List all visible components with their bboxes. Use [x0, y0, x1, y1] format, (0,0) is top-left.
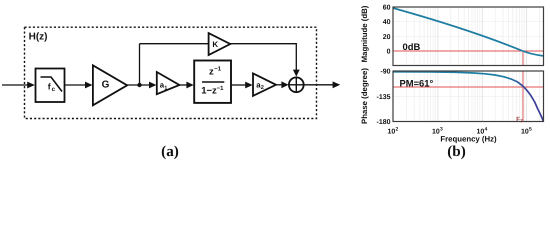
- x tick labels: [388, 126, 533, 135]
- magnitude y tick labels: [383, 5, 391, 56]
- arrowhead into integrator: [186, 82, 193, 89]
- svg-text:-135: -135: [376, 94, 390, 101]
- amplifier G: [93, 65, 127, 105]
- svg-text:(b): (b): [447, 143, 466, 160]
- svg-text:1: 1: [164, 85, 167, 91]
- integrator block z-1/(1-z-1): [194, 61, 231, 103]
- phase y tick labels: [376, 69, 390, 126]
- svg-text:Magnitude (dB): Magnitude (dB): [360, 5, 369, 62]
- svg-text:Frequency (Hz): Frequency (Hz): [440, 134, 497, 143]
- svg-text:10: 10: [432, 129, 440, 136]
- arrowhead into a1: [149, 82, 156, 89]
- svg-text:5: 5: [529, 126, 532, 132]
- filter block fc: [36, 69, 65, 103]
- wire K to summer: [230, 44, 296, 71]
- svg-text:0dB: 0dB: [403, 41, 421, 52]
- phase axes frame: [393, 71, 544, 122]
- node after G: [137, 83, 141, 87]
- arrowhead into summer left: [281, 81, 288, 88]
- arrowhead into a2: [245, 82, 252, 89]
- wire a2 to summer: [276, 84, 283, 86]
- svg-text:2: 2: [396, 126, 399, 132]
- svg-text:−1: −1: [214, 66, 222, 73]
- svg-text:-90: -90: [380, 69, 390, 76]
- svg-text:0: 0: [387, 49, 391, 56]
- svg-text:20: 20: [383, 34, 391, 41]
- svg-text:K: K: [212, 40, 218, 49]
- svg-text:PM=61°: PM=61°: [400, 78, 434, 89]
- svg-text:c: c: [52, 86, 56, 93]
- wire riser to feedback: [139, 44, 141, 85]
- amplifier K: [209, 33, 231, 55]
- wire input: [2, 84, 28, 86]
- phase curve: [393, 72, 543, 121]
- svg-text:-180: -180: [376, 119, 390, 126]
- arrowhead output: [333, 81, 341, 88]
- wire integrator to a2: [231, 84, 246, 86]
- wire a1 to integrator: [179, 84, 187, 86]
- svg-text:10: 10: [388, 129, 396, 136]
- svg-text:H(z): H(z): [29, 31, 48, 42]
- svg-text:T: T: [520, 119, 523, 124]
- amplifier a1: [157, 72, 180, 94]
- svg-text:(a): (a): [161, 143, 179, 160]
- wire fc to G: [65, 84, 87, 86]
- magnitude grid: [394, 8, 544, 66]
- arrowhead into G: [85, 82, 93, 89]
- svg-text:z: z: [209, 67, 214, 78]
- svg-text:4: 4: [485, 126, 488, 132]
- svg-text:60: 60: [383, 5, 391, 12]
- svg-text:f: f: [48, 82, 51, 92]
- amplifier a2: [253, 73, 276, 96]
- phase grid: [394, 72, 544, 122]
- svg-text:−1: −1: [217, 85, 225, 92]
- svg-text:Phase (degree): Phase (degree): [360, 68, 369, 124]
- red crossover vline phase: [522, 71, 524, 121]
- svg-text:3: 3: [440, 126, 443, 132]
- arrowhead input: [27, 82, 35, 89]
- arrowhead down into summer: [293, 70, 300, 77]
- dashed box H(z): [25, 27, 317, 118]
- PM red line: [394, 86, 544, 88]
- red crossover vline magnitude: [522, 51, 524, 65]
- svg-text:2: 2: [261, 85, 264, 91]
- wire G to a1: [127, 84, 150, 86]
- svg-text:1−z: 1−z: [201, 86, 217, 97]
- svg-text:40: 40: [383, 19, 391, 26]
- wire output: [304, 84, 334, 86]
- magnitude curve: [393, 8, 543, 56]
- wire feedback to K: [140, 43, 209, 45]
- magnitude axes frame: [393, 7, 544, 66]
- 0dB red line: [394, 50, 544, 52]
- svg-text:G: G: [102, 80, 110, 91]
- summing junction: [289, 77, 304, 92]
- svg-text:10: 10: [521, 129, 529, 136]
